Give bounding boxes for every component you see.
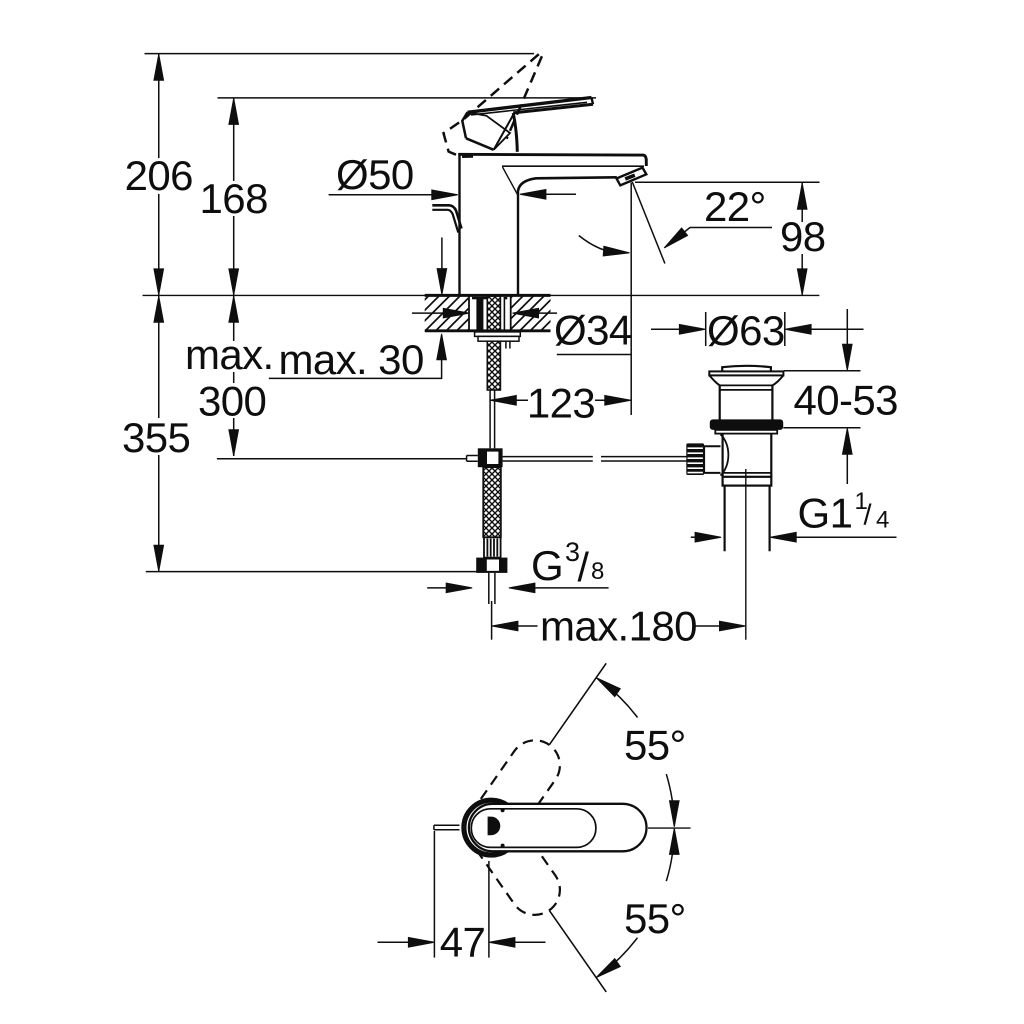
dimension Ø63 extension stubs: [705, 312, 707, 346]
svg-text:123: 123: [527, 380, 595, 427]
svg-text:/: /: [864, 500, 873, 532]
lever notch: [488, 817, 501, 836]
drain ball joint arc: [721, 435, 729, 476]
handle knuckle crease: [468, 112, 511, 149]
dimension max180 arrows: [492, 621, 518, 631]
dimension Ø34 hole arrow left: [412, 312, 444, 314]
label 355: [120, 418, 193, 455]
water jet vertical centerline: [630, 183, 632, 416]
label 168: [201, 181, 266, 216]
svg-text:168: 168: [200, 175, 268, 222]
dimension 40-53 lower: [843, 428, 853, 454]
supply hose braided section: [483, 467, 501, 537]
drain body ring: [723, 472, 772, 474]
drain knurled adjuster: [686, 443, 704, 475]
aerator nozzle: [617, 168, 647, 186]
svg-text:55°: 55°: [624, 722, 686, 769]
drain tailpipe: [723, 486, 725, 552]
counter slab top edge: [425, 294, 551, 297]
rod clamp inner: [487, 452, 498, 464]
svg-text:40-53: 40-53: [794, 377, 898, 424]
counter top line: [143, 294, 820, 296]
svg-text:G: G: [531, 542, 563, 589]
mounting hole left edge: [468, 296, 470, 331]
svg-text:max.: max.: [185, 331, 274, 378]
handle raised position dashed underside: [507, 56, 542, 139]
extension line (168 level): [218, 97, 597, 99]
dimension 206 line: [158, 54, 160, 295]
svg-text:8: 8: [591, 558, 604, 585]
handle lever top view: [469, 804, 647, 852]
handle lever inner surface: [471, 809, 596, 848]
dimension 47 arrows: [378, 941, 409, 943]
dimension 47 extension lines: [433, 831, 435, 958]
rod clamp block: [478, 448, 503, 467]
faucet body right edge: [517, 191, 519, 295]
svg-text:Ø34: Ø34: [554, 307, 632, 354]
svg-text:Ø63: Ø63: [707, 307, 785, 354]
base overhang left: [472, 297, 488, 300]
svg-text:max. 30: max. 30: [279, 336, 424, 383]
counter slab hatched left: [425, 297, 469, 331]
svg-text:G1: G1: [798, 490, 853, 537]
label 123: [528, 385, 595, 420]
lever dimple top: [501, 808, 505, 812]
dimension 123 line: [490, 399, 631, 401]
dimension 40-53 upper: [846, 309, 848, 345]
handle lever top edge: [468, 98, 592, 113]
centerline right: [648, 827, 691, 829]
swivel arc lower: [601, 938, 637, 974]
base overhang right: [504, 297, 508, 300]
handle swivel dashed outline lower: [456, 793, 569, 925]
Ø34 label underline: [557, 354, 631, 356]
drain lower band: [723, 477, 772, 486]
handle swivel dashed outline upper: [456, 731, 569, 863]
drain flange lip: [715, 430, 777, 434]
svg-text:98: 98: [780, 213, 826, 260]
dimension 98 extension line: [635, 181, 820, 183]
drain valve body sides: [721, 434, 723, 477]
horizontal lever rod: [503, 457, 687, 461]
svg-text:4: 4: [876, 507, 889, 534]
pop-up pull rod hook outer: [432, 205, 461, 228]
drain neck sides: [719, 385, 721, 419]
mounting washer lower: [478, 336, 519, 341]
label max. (of max300): [183, 341, 273, 372]
svg-text:47: 47: [440, 919, 486, 966]
aerator outlet slot: [625, 175, 635, 179]
dimension 98 line: [801, 183, 803, 295]
mounting washer upper: [475, 332, 521, 337]
drain centerline: [745, 469, 747, 640]
handle knuckle left edge: [462, 112, 467, 138]
shank left wall: [476, 297, 483, 331]
pull rod lower section: [489, 391, 491, 449]
spout underside curve: [518, 177, 617, 191]
rod guide stubs below washer: [505, 341, 507, 348]
svg-text:max.180: max.180: [540, 603, 697, 650]
hose nut G3/8: [476, 558, 507, 573]
22 degree arc indicator: [579, 236, 620, 253]
dimension max300 line: [233, 296, 235, 456]
drain stopper cap: [722, 366, 771, 372]
dimension G1 1/4 arrows: [691, 536, 695, 538]
leader 22 degrees: [665, 228, 772, 248]
swivel limit line upper: [549, 663, 606, 745]
lever dimple bottom: [501, 844, 505, 848]
water jet 22 degree line: [632, 182, 665, 264]
svg-text:/: /: [578, 544, 590, 590]
extension line 355 bottom: [146, 571, 505, 573]
supply pipe end: [488, 573, 490, 604]
handle knuckle bottom edge: [466, 138, 494, 150]
handle raised position dashed outline: [444, 54, 539, 157]
dimension G3/8 arrows: [427, 587, 446, 589]
drain neck rings: [720, 384, 773, 386]
extension line top (206 level): [145, 53, 535, 55]
label 206: [126, 158, 191, 194]
label 98: [780, 222, 826, 254]
dimension Ø50 leader left: [329, 194, 433, 196]
svg-text:300: 300: [198, 378, 266, 425]
dimension max30 lower arrow and leader: [269, 360, 442, 378]
dimension Ø63 arrows: [651, 328, 680, 330]
dimension Ø34 hole arrow right: [513, 308, 539, 318]
hose ferrule: [484, 537, 501, 557]
mounting hole right edge: [510, 296, 512, 331]
drain stopper plate: [709, 371, 783, 375]
handle knuckle right face: [494, 115, 514, 150]
svg-text:22°: 22°: [704, 183, 766, 230]
drain adjuster connector: [704, 446, 720, 473]
handle lever underside: [513, 104, 593, 113]
counter slab bottom edge: [425, 329, 551, 332]
pop-up pull rod hook inner: [432, 210, 458, 233]
svg-text:206: 206: [125, 152, 193, 199]
svg-text:355: 355: [122, 414, 190, 461]
dimension Ø50 arrow right: [520, 190, 546, 200]
oblique extension tick at spout: [503, 167, 519, 196]
dimension 355 line: [158, 296, 160, 571]
swivel arc upper: [601, 681, 637, 717]
handle neck right edge: [513, 113, 517, 152]
faucet body and spout top line: [458, 154, 646, 166]
spout inner top line: [502, 165, 644, 167]
extension line max300 bottom: [217, 458, 467, 460]
handle lever inner line: [471, 102, 587, 115]
pull rod stub top view: [434, 825, 460, 830]
label 300: [196, 383, 266, 418]
clamp left stub rod: [467, 456, 478, 462]
faucet body left edge: [458, 154, 460, 295]
swivel limit line lower: [549, 910, 606, 992]
dimension max180 extension left: [491, 601, 493, 640]
handle lever tip end: [592, 98, 594, 105]
dimension max30 upper arrow: [441, 238, 443, 270]
drain neck curves: [709, 375, 783, 385]
svg-text:Ø50: Ø50: [336, 151, 414, 198]
body ring top view: [462, 798, 521, 857]
threaded shank crosshatch: [487, 296, 500, 390]
counter slab hatched right: [512, 297, 551, 331]
dimension 168 line: [233, 98, 235, 295]
drain seal flange: [710, 419, 783, 430]
svg-text:55°: 55°: [624, 895, 686, 942]
shank right thin line: [503, 297, 505, 331]
